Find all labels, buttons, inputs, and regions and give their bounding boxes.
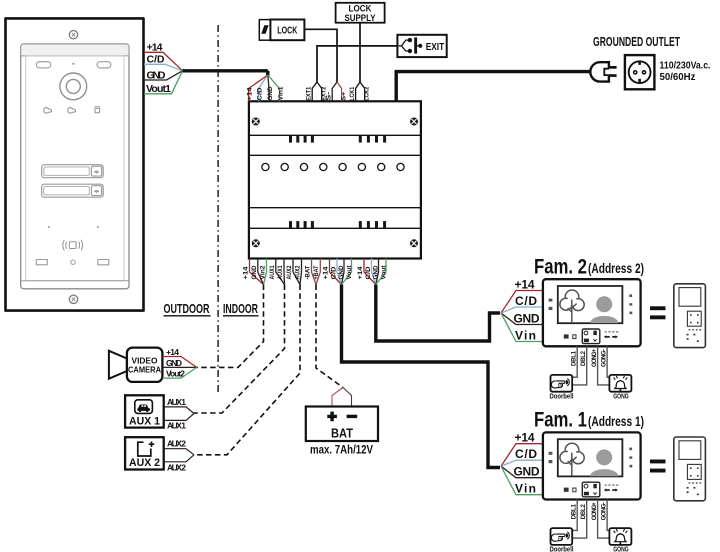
label INDOOR <box>223 302 259 316</box>
svg-text:AUX 1: AUX 1 <box>129 415 160 427</box>
svg-text:AUX 2: AUX 2 <box>167 462 186 472</box>
AUX 1 box <box>125 395 164 427</box>
wire: dashed to battery <box>316 285 343 388</box>
svg-text:BAT: BAT <box>331 427 353 441</box>
svg-text:+14: +14 <box>324 266 330 280</box>
svg-text:LOCK: LOCK <box>277 25 297 37</box>
wire AUX2 a <box>164 449 194 455</box>
wire AUX1 b <box>164 414 194 421</box>
node: panel output bundle labels +14 C/D GND Vout1 <box>146 42 171 96</box>
svg-text:AUX2: AUX2 <box>296 265 302 280</box>
svg-text:Vout: Vout <box>347 266 353 280</box>
svg-text:AUX1: AUX1 <box>278 265 284 280</box>
svg-text:CAMERA: CAMERA <box>128 365 161 375</box>
svg-text:AUX 2: AUX 2 <box>167 439 186 449</box>
svg-text:GND: GND <box>252 265 258 280</box>
terminal pair EXT1 EXT2 <box>312 82 322 101</box>
bottom fan group4 -BAT +BAT <box>312 259 321 285</box>
svg-text:+14: +14 <box>244 266 250 280</box>
svg-text:Vout: Vout <box>381 266 387 280</box>
button box EXIT <box>397 35 446 57</box>
wire AUX1 a <box>164 407 194 414</box>
terminal pair S- S+ <box>332 82 337 101</box>
svg-text:S+: S+ <box>341 91 347 101</box>
wire +14 to camera <box>162 357 196 368</box>
svg-text:EXIT: EXIT <box>426 41 445 53</box>
wire: mains power cord <box>396 72 590 102</box>
bottom fan group2 AUX1 AUX1 <box>276 259 285 285</box>
svg-text:+BAT: +BAT <box>314 265 320 279</box>
bottom fan group1 +14 GND Vin2 (video camera) <box>250 259 267 285</box>
svg-text:AUX 2: AUX 2 <box>129 457 160 469</box>
svg-text:AUX2: AUX2 <box>287 265 293 280</box>
monitor assembly Fam.1 <box>501 431 705 552</box>
video camera labels +14 GND Vout2 <box>166 347 185 379</box>
svg-text:GROUNDED OUTLET: GROUNDED OUTLET <box>593 35 680 49</box>
svg-text:EXT1: EXT1 <box>307 86 313 101</box>
svg-text:+14: +14 <box>247 87 253 101</box>
svg-text:LCK2: LCK2 <box>365 86 371 101</box>
wire Vout2 to camera <box>162 367 196 378</box>
svg-text:AUX 1: AUX 1 <box>167 397 186 407</box>
label OUTDOOR <box>164 302 211 316</box>
bottom fan group6 +14 C/D GND Vout (to Fam.2) <box>364 259 386 285</box>
svg-text:GND: GND <box>166 358 182 368</box>
wire +14 red from panel <box>144 52 183 71</box>
AUX 2 box <box>125 437 164 469</box>
svg-text:Fam. 1: Fam. 1 <box>534 408 587 432</box>
monitor assembly Fam.2 <box>501 277 705 400</box>
svg-text:GND: GND <box>339 265 345 280</box>
svg-text:GND: GND <box>268 86 274 101</box>
wire: thick cable unit to Fam.2 monitor <box>376 285 500 342</box>
terminal pair LCK1 LCK2 <box>356 82 365 101</box>
svg-text:GND: GND <box>374 265 380 280</box>
svg-text:OUTDOOR: OUTDOOR <box>164 302 210 316</box>
wire C/D blue from panel <box>144 64 183 71</box>
video camera box <box>127 348 162 382</box>
bottom fan group3 AUX2 AUX2 <box>293 259 302 285</box>
plug (mains plug icon) <box>590 62 616 81</box>
svg-text:110/230Va.c.: 110/230Va.c. <box>660 60 711 72</box>
grounded outlet socket <box>625 55 655 89</box>
svg-text:50/60Hz: 50/60Hz <box>660 71 696 83</box>
wire LOCK SUPPLY to LCK terminals <box>359 23 361 82</box>
wire BAT+ red <box>332 388 343 407</box>
wire EXIT to EXT terminals <box>317 46 397 82</box>
svg-text:C/D: C/D <box>258 87 264 101</box>
wire: dashed to AUX 2 <box>194 285 300 455</box>
svg-text:(Address 2): (Address 2) <box>588 260 644 276</box>
svg-text:-BAT: -BAT <box>306 265 312 279</box>
svg-text:S-: S- <box>327 92 333 101</box>
bottom fan group5 +14 C/D GND Vout (to Fam.1) <box>330 259 352 285</box>
svg-text:(Address 1): (Address 1) <box>588 413 644 429</box>
svg-text:Fam. 2: Fam. 2 <box>534 255 587 279</box>
relay box LOCK <box>270 20 304 41</box>
outdoor/indoor boundary dash-dot line <box>217 25 219 395</box>
wire GND black from panel <box>144 71 183 80</box>
wire BAT- black <box>343 388 352 407</box>
svg-text:LCK1: LCK1 <box>350 86 356 101</box>
svg-text:C/D: C/D <box>366 266 372 280</box>
wire LOCK to S terminals <box>304 29 337 82</box>
wire GND to camera <box>162 366 196 368</box>
svg-text:+14: +14 <box>358 266 364 280</box>
svg-text:INDOOR: INDOOR <box>223 302 258 316</box>
power box LOCK SUPPLY <box>336 3 385 23</box>
control unit U1 (DIN rail module) <box>249 101 421 258</box>
svg-text:Vin2: Vin2 <box>261 265 267 280</box>
wire: thick cable panel to control unit <box>183 71 268 76</box>
wire: dashed to video camera <box>197 285 264 368</box>
battery BAT <box>306 407 378 442</box>
svg-text:AUX 1: AUX 1 <box>167 421 186 431</box>
svg-text:Vin1: Vin1 <box>278 86 284 101</box>
video camera lens <box>109 351 127 379</box>
svg-text:+14: +14 <box>166 347 179 357</box>
top terminal fan: +14 C/D GND Vin1 into unit <box>249 75 280 101</box>
wire: dashed to AUX 1 <box>194 285 285 414</box>
outdoor door station panel <box>6 18 144 310</box>
lock icon (door latch) <box>259 20 270 41</box>
svg-text:max. 7Ah/12V: max. 7Ah/12V <box>310 445 373 457</box>
svg-text:SUPPLY: SUPPLY <box>345 13 376 23</box>
wire: thick cable unit to Fam.1 monitor <box>342 285 501 468</box>
wire AUX2 b <box>164 455 194 462</box>
wire Vout1 green from panel <box>144 71 183 94</box>
svg-text:AUX1: AUX1 <box>270 265 276 280</box>
svg-text:C/D: C/D <box>332 266 338 280</box>
